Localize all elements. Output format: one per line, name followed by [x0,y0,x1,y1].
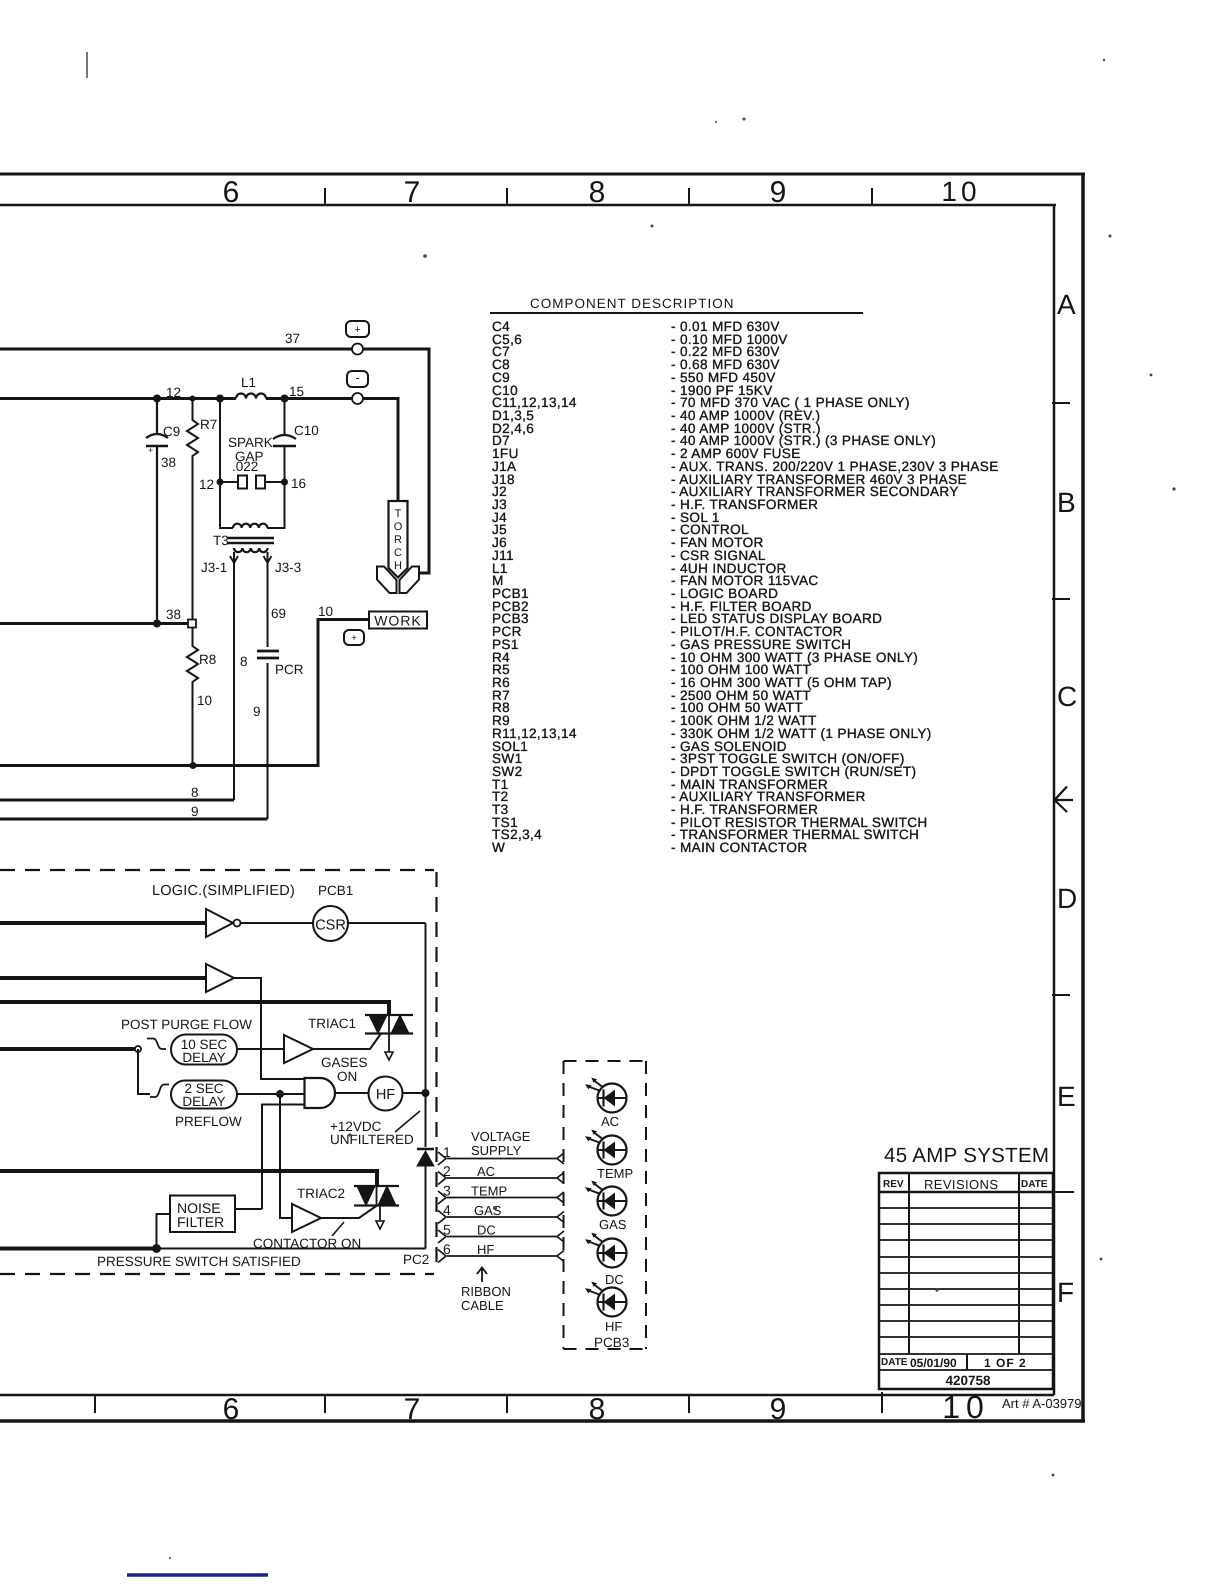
input wire to buffer U2 [0,976,206,980]
svg-text:R: R [394,534,402,546]
wire 10s delay to buffer U3 [237,1048,284,1050]
wire AND to HF [335,1092,369,1094]
svg-text:CABLE: CABLE [461,1298,504,1313]
svg-text:C: C [394,547,402,559]
svg-text:5: 5 [443,1222,451,1238]
wire to TRIAC2 top [0,1171,377,1186]
svg-text:ON: ON [337,1069,357,1084]
svg-text:10: 10 [942,1389,990,1425]
svg-text:05/01/90: 05/01/90 [910,1356,957,1370]
wire down from 2sec junction to buffer U4 [280,1094,292,1218]
svg-text:38: 38 [166,607,181,622]
pin 1 [438,1152,564,1165]
svg-text:GASES: GASES [321,1055,368,1070]
svg-text:TEMP: TEMP [471,1184,507,1199]
resistor R7 [187,399,198,620]
terminal circle on wire 37 [352,344,363,355]
svg-text:3: 3 [443,1183,451,1199]
svg-text:2: 2 [443,1163,451,1179]
LED D-AC [585,1078,627,1129]
WORK wire 10 [0,620,369,766]
svg-text:C: C [1057,681,1077,712]
svg-text:TRIAC1: TRIAC1 [308,1016,356,1031]
buffer U4 (contactor) [292,1204,321,1232]
svg-text:6: 6 [223,176,240,209]
svg-text:R7: R7 [200,417,217,432]
svg-text:B: B [1057,487,1076,518]
wire 9 [0,818,268,821]
svg-text:15: 15 [289,384,304,399]
title block: 45 AMP SYSTEM [879,1144,1053,1389]
torch symbol [389,501,408,578]
svg-text:AC: AC [477,1164,495,1179]
svg-text:WORK: WORK [374,613,422,629]
pressure switch satisfied wire [0,1247,157,1251]
svg-text:420758: 420758 [945,1373,991,1388]
svg-text:VOLTAGE: VOLTAGE [471,1129,531,1144]
noise filter input wire [157,1214,171,1249]
AND gate [305,1078,336,1108]
svg-text:69: 69 [271,606,286,621]
svg-text:HF: HF [376,1087,395,1103]
node dots on main wire [153,395,161,403]
svg-text:H: H [394,560,402,572]
wire CSR to bus [348,922,426,924]
svg-text:D: D [1057,883,1077,914]
svg-text:T: T [395,508,402,520]
svg-text:9: 9 [253,704,261,719]
svg-text:7: 7 [404,1393,421,1426]
svg-text:PREFLOW: PREFLOW [175,1114,242,1129]
transformer T3 [233,524,267,528]
svg-text:AC: AC [601,1114,619,1129]
falling edge symbol [147,1039,166,1050]
blue pen line bottom left [127,1573,268,1577]
svg-text:J3-1: J3-1 [201,560,227,575]
resistor R8 [187,627,198,766]
svg-text:C10: C10 [294,423,319,438]
wire buffer U3 to TRIAC1 gate [313,1034,381,1050]
svg-text:1 OF 2: 1 OF 2 [984,1356,1027,1370]
plus terminal symbol [346,321,369,337]
input wire to 10 sec delay [0,1047,138,1051]
LED D-TEMP [585,1130,633,1181]
svg-text:- MAIN CONTACTOR: - MAIN CONTACTOR [671,840,808,855]
svg-text:45 AMP SYSTEM: 45 AMP SYSTEM [884,1144,1049,1167]
border frame right side [1052,174,1083,1421]
svg-text:37: 37 [285,331,300,346]
branch down to 2 sec delay [138,1049,150,1094]
svg-text:1: 1 [443,1144,451,1160]
plus terminal under WORK wire [344,630,364,645]
minus terminal symbol [347,371,368,387]
svg-text:Art # A-03979: Art # A-03979 [1002,1396,1082,1411]
svg-text:UNFILTERED: UNFILTERED [330,1132,414,1147]
2 sec delay box [171,1081,237,1109]
svg-text:COMPONENT DESCRIPTION: COMPONENT DESCRIPTION [530,296,735,311]
svg-text:DELAY: DELAY [182,1094,225,1109]
svg-text:TEMP: TEMP [597,1166,633,1181]
svg-text:7: 7 [404,176,421,209]
svg-text:+: + [351,633,357,644]
border frame top band [0,174,1085,209]
svg-text:DC: DC [605,1272,624,1287]
svg-text:16: 16 [291,476,306,491]
svg-text:RIBBON: RIBBON [461,1284,511,1299]
svg-text:PCR: PCR [275,662,304,677]
pin 6 [438,1250,564,1263]
pin 3 [438,1191,564,1204]
pin 2 [438,1172,564,1185]
wire buffer U4 to TRIAC2 gate [321,1206,377,1219]
component description table [490,296,999,855]
svg-text:6: 6 [443,1241,451,1257]
svg-text:6: 6 [223,1393,240,1426]
svg-text:10: 10 [318,604,333,619]
inductor L1 [236,394,266,399]
noise filter riser to AND bottom input [262,1105,305,1210]
torch arrow right wing [400,567,420,594]
border frame bottom band [0,1389,1085,1426]
gas out open arrow below TRIAC1 [388,1034,390,1053]
svg-text:12: 12 [199,477,214,492]
svg-text:+: + [148,445,153,455]
spark gap [220,399,285,529]
right bus vertical [425,923,427,1249]
revisions table [879,1173,1053,1389]
diode on bus [417,1151,434,1166]
WORK box [369,612,427,629]
torch arrow left wing [377,567,397,594]
pin 4 [438,1211,564,1224]
svg-text:+: + [354,324,360,336]
NOISE FILTER box [170,1196,235,1233]
open arrow below TRIAC2 [379,1206,381,1222]
LED D-DC [585,1233,627,1287]
LED D-HF [585,1282,627,1334]
svg-text:10: 10 [941,176,980,207]
rising edge symbol [150,1085,169,1098]
svg-text:O: O [394,521,403,533]
svg-text:HF: HF [477,1242,494,1257]
svg-text:4: 4 [443,1202,451,1218]
inverter U1 [206,909,233,937]
svg-text:L1: L1 [241,375,256,390]
svg-text:8: 8 [589,176,606,209]
svg-text:FILTER: FILTER [177,1214,224,1230]
svg-text:8: 8 [240,654,248,669]
CSR circle [313,906,348,941]
svg-text:T3: T3 [213,533,229,548]
wire 37 (top wire to torch right side) [0,349,429,573]
svg-text:DC: DC [477,1223,496,1238]
HF circle [369,1077,403,1111]
svg-text:38: 38 [161,455,176,470]
svg-text:R8: R8 [199,652,216,667]
svg-text:F: F [1057,1277,1074,1308]
svg-text:9: 9 [770,176,787,209]
svg-text:DATE: DATE [1021,1179,1048,1190]
svg-text:POST PURGE FLOW: POST PURGE FLOW [121,1017,252,1032]
svg-text:PCB3: PCB3 [594,1335,629,1350]
svg-text:10: 10 [197,693,212,708]
LED D-GAS [585,1181,627,1232]
svg-text:12: 12 [166,385,181,400]
svg-text:REVISIONS: REVISIONS [924,1177,998,1192]
svg-text:9: 9 [770,1393,787,1426]
svg-text:C9: C9 [163,424,180,439]
wire HF to bus [403,1092,426,1094]
capacitor C9 branch [156,399,158,624]
svg-text:PCB1: PCB1 [318,883,353,898]
svg-text:8: 8 [589,1393,606,1426]
svg-text:PC2: PC2 [403,1252,429,1267]
ribbon cable label with up arrow [477,1268,487,1283]
svg-text:8: 8 [191,785,199,800]
svg-text:W: W [492,840,505,855]
buffer U3 (gases) [284,1035,313,1063]
wire buffer U2 to AND gate top input [234,978,305,1079]
svg-text:.022: .022 [232,459,258,474]
wire 2s delay to AND with junction [237,1093,305,1095]
wire 38 (left, ends with pin) [0,622,188,625]
svg-text:HF: HF [605,1319,622,1334]
svg-text:TRIAC2: TRIAC2 [297,1186,345,1201]
svg-text:REV: REV [883,1179,904,1190]
svg-text:9: 9 [191,804,199,819]
svg-text:CSR: CSR [315,918,346,934]
terminal circle on wire 15 [352,393,363,404]
zone arrow [1055,787,1074,813]
svg-text:GAS: GAS [599,1217,627,1232]
svg-text:LOGIC.(SIMPLIFIED): LOGIC.(SIMPLIFIED) [152,883,295,899]
PCR contact [257,650,279,653]
wire 8 [0,799,234,802]
svg-text:J3-3: J3-3 [275,560,301,575]
pin 5 [438,1230,564,1243]
svg-text:A: A [1057,289,1076,320]
svg-text:SUPPLY: SUPPLY [471,1143,522,1158]
main wire node 12-15 [0,399,398,502]
svg-text:DELAY: DELAY [182,1050,225,1065]
T3 secondary leads J3-1 / J3-3 [234,552,268,819]
input wire to inverter U1 [0,921,206,925]
buffer U2 [206,964,234,992]
noise filter output wire [235,1208,262,1210]
svg-text:E: E [1057,1081,1076,1112]
svg-text:-: - [355,370,359,385]
capacitor C10 [284,399,286,483]
svg-text:GAS: GAS [474,1203,502,1218]
wire inverter to CSR [241,922,314,924]
svg-text:PRESSURE SWITCH SATISFIED: PRESSURE SWITCH SATISFIED [97,1254,301,1269]
wire to TRIAC1 top [0,1002,389,1015]
svg-text:SPARK: SPARK [228,435,273,450]
10 sec delay box [171,1035,237,1065]
svg-text:DATE: DATE [881,1357,908,1368]
